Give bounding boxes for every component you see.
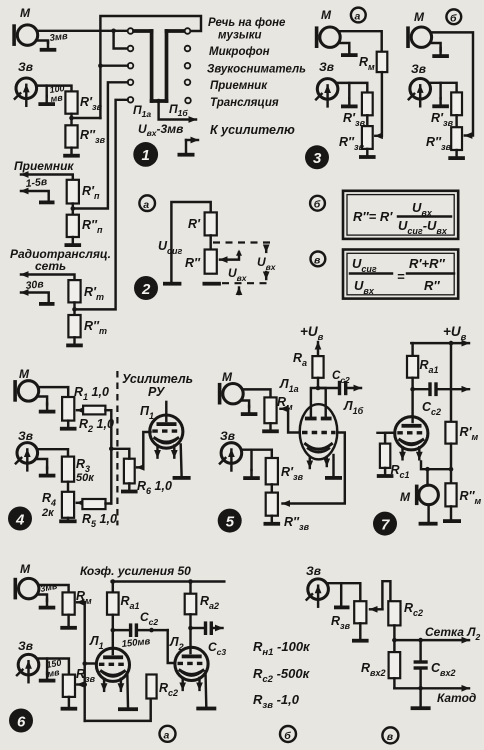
svg-text:Зв: Зв [18, 60, 33, 74]
resistor R'зв (3б) [451, 92, 462, 115]
resistor Ra1 [407, 356, 418, 378]
wire input arrow 1 [21, 175, 73, 180]
ground (R''зв 3a) [359, 149, 376, 159]
wire Зв to Rзв (в) [328, 583, 360, 601]
svg-text:R″= R′: R″= R′ [353, 209, 393, 224]
ground (R''м) [443, 519, 461, 523]
node Ra2 top [188, 579, 193, 584]
svg-text:3мв: 3мв [49, 31, 69, 44]
tube П1 [150, 415, 183, 458]
wire mic to Rм (6) [39, 585, 69, 592]
wire Зв to R'зв [37, 86, 72, 92]
svg-text:Катод: Катод [437, 691, 476, 705]
svg-text:=: = [397, 269, 405, 284]
wire tap up to contact row 4 [73, 82, 128, 208]
formula box 1 [343, 191, 458, 239]
resistor R6 [124, 459, 135, 484]
label (б) circled [310, 196, 325, 211]
wire Зв to R'зв (5) [242, 450, 272, 458]
svg-text:а: а [164, 730, 170, 742]
potentiometer R''зв (5) [266, 493, 278, 516]
node Трансляция tap [72, 307, 77, 312]
wire R'п to R''п [72, 204, 74, 215]
wire input arrow 2 [21, 191, 49, 200]
figure number 6 [9, 709, 33, 733]
pickup Зв (4) [16, 443, 38, 471]
figure number 4 [8, 507, 32, 531]
wire Ra2 to anode node Л2 [189, 614, 191, 628]
svg-text:7: 7 [381, 517, 390, 534]
wire input arrow 1 [21, 275, 75, 281]
node anode junction (7) [410, 387, 415, 392]
resistor R'' [205, 250, 217, 274]
wire Зв to Rзв [39, 659, 69, 675]
svg-text:Зв: Зв [18, 639, 33, 653]
resistor R'зв (5) [266, 458, 278, 484]
wire R2 right to bus [105, 409, 111, 411]
switch П1б wiper bar [165, 31, 169, 101]
potentiometer Rзв (6) [63, 675, 75, 697]
svg-text:M: M [19, 367, 30, 381]
wire R'зв to R''зв (3б) [455, 115, 457, 127]
wire mic to Rм [244, 389, 270, 397]
wire mic to Rм [340, 31, 382, 52]
wire Rвх2 bottom [393, 678, 395, 688]
wire Зв to R'зв (3б) [431, 83, 457, 93]
wire mic to R1 [39, 387, 68, 397]
resistor R''п [67, 215, 79, 237]
resistor R'зв (3a) [362, 93, 373, 116]
wire anode T feeds [311, 388, 326, 417]
node grid wire left [392, 638, 397, 643]
microphone M (3б) [406, 26, 431, 48]
wire Л1 cathode to ground [126, 673, 129, 708]
wire R''м to ground [450, 506, 452, 519]
ground (Приемник input) [39, 201, 55, 205]
svg-text:К усилителю: К усилителю [210, 123, 295, 137]
svg-text:Приемник: Приемник [14, 159, 74, 173]
wire grid right to R''зв tap [283, 433, 345, 504]
wire Зв to R3 [38, 449, 68, 456]
svg-text:РУ: РУ [148, 385, 166, 399]
switch П1б contact 5 [185, 98, 191, 104]
resistor R'зв [65, 91, 77, 113]
wire anode lead Л1 [112, 630, 114, 654]
wire Cc2 out to Rc2 and Л2 grid [138, 629, 168, 631]
ground (Л2 cathode) [196, 707, 216, 711]
figure number 2 [134, 276, 158, 300]
ground (в) [419, 688, 421, 706]
svg-text:M: M [20, 6, 31, 20]
wire cathode to mic junction [421, 462, 451, 470]
ground (mic 3б) [431, 43, 441, 51]
wire Л2 grid link to Cc2 wire [168, 630, 175, 663]
wire Rзв tap arrow to bus [77, 683, 84, 685]
wire Ra to anode junction [317, 378, 319, 388]
svg-text:4: 4 [15, 512, 25, 529]
wire Cc2 output arrow [438, 388, 469, 390]
svg-text:R″: R″ [424, 278, 440, 293]
tube (7) [395, 417, 428, 460]
tube П1 anode lead [165, 402, 167, 421]
svg-text:6: 6 [17, 714, 26, 731]
ground (Rм 6) [67, 615, 69, 626]
figure number 5 [218, 509, 242, 533]
anode bar left (Л1а) [305, 417, 317, 421]
ground (mic 3a) [339, 43, 349, 50]
wire anode lead (7) [411, 389, 413, 422]
wire grid П1 to R6 tap [137, 432, 151, 467]
potentiometer Rзв (в) [354, 601, 366, 623]
wire Ra1 to anode node [411, 378, 413, 390]
ground (Rзв 6) [68, 697, 70, 707]
ground (mic 6) [38, 595, 48, 602]
switch П1а wiper top link [134, 29, 152, 33]
pickup Зв (3a) [316, 79, 338, 107]
pickup Зв [15, 78, 37, 106]
svg-text:Зв: Зв [220, 429, 235, 443]
svg-text:1-5в: 1-5в [25, 176, 48, 190]
resistor R' [205, 212, 217, 235]
wire Ra2 top lead [189, 582, 191, 594]
resistor R'п [67, 180, 79, 204]
wire Ra1 to anode node (6) [112, 615, 114, 630]
wire Катод arrow [394, 687, 469, 689]
wire R'зв to R''зв (3a) [366, 115, 368, 126]
ground (R''т) [66, 337, 83, 347]
wire mixing bus vertical [83, 602, 85, 721]
svg-text:M: M [321, 8, 332, 22]
wire R5 right to bus [106, 502, 112, 504]
svg-text:Uвх-3мв: Uвх-3мв [138, 122, 183, 138]
wire R'т to R''т [73, 302, 75, 315]
wire R3 to R4 [67, 482, 69, 492]
microphone M (5) [218, 383, 243, 405]
wire top supply rail (6) [112, 580, 225, 582]
svg-text:Усилитель: Усилитель [122, 372, 193, 386]
svg-text:Зв: Зв [306, 564, 321, 578]
resistor R''зв (3a) [362, 126, 373, 149]
svg-text:2: 2 [141, 281, 151, 298]
node row 3 bend [98, 63, 103, 68]
wire mic output to switch row 1 [38, 30, 128, 32]
node anode junction Л1 [111, 628, 116, 633]
wire R'м to junction [450, 444, 452, 484]
tube Л1 [96, 648, 129, 691]
node Cвх2 top [418, 638, 423, 643]
wire tap up to contact row 5 [75, 100, 128, 310]
formula box 2 [343, 250, 458, 299]
bar (source bottom) [163, 282, 181, 286]
ground (mic 5) [242, 401, 249, 408]
resistor R5 (horizontal) with tap arrow into R4 [77, 502, 83, 504]
wire mic to ground (7) [427, 505, 429, 522]
wire wiper join bar [152, 99, 167, 103]
wire П1 cathode right to ground [179, 445, 182, 477]
wire supply arrow up [317, 342, 319, 356]
svg-text:Речь на фоне: Речь на фоне [208, 17, 286, 29]
wire R' to R'' [209, 235, 211, 249]
node Cвх2 bottom [418, 686, 423, 691]
node bus to РУ [109, 447, 114, 452]
wire R'зв to R''зв (5) [271, 484, 273, 492]
wire Cc2 to Л1б arrow [347, 387, 361, 389]
ground (mic M) [40, 42, 57, 52]
arrow Uвх right top [265, 246, 267, 252]
node mic top [425, 467, 430, 472]
ground (R''зв 3б) [448, 150, 465, 160]
resistor R''м [445, 483, 456, 506]
resistor Ra [312, 356, 323, 378]
resistor R'т [68, 280, 80, 302]
wire Cc3 output arrow [213, 627, 223, 629]
capacitor Cc3 [191, 627, 204, 629]
ground (сеть input) [39, 302, 55, 306]
svg-text:M: M [20, 562, 31, 576]
svg-text:в: в [314, 255, 321, 267]
figure number 7 [373, 512, 397, 536]
capacitor Cc2 [318, 387, 337, 389]
node grid bus [82, 661, 87, 666]
tube Л2 [175, 647, 208, 690]
pickup Зв (6) [17, 654, 39, 682]
svg-text:Зв: Зв [319, 60, 334, 74]
resistor Rc1 [380, 444, 390, 468]
ground (R''зв) [63, 148, 80, 158]
ground (Зв 3б) [439, 83, 441, 99]
microphone M (7) [415, 485, 419, 506]
ground (R1) [60, 421, 77, 431]
arrow Uвх right bottom [265, 272, 267, 279]
wire Ra1 top lead [112, 582, 114, 593]
label (а) circled [139, 195, 155, 211]
resistor Rc2 (в) [388, 601, 400, 625]
svg-text:5: 5 [226, 514, 235, 531]
resistor R3 [62, 457, 74, 482]
wire right bus to R'м [450, 343, 452, 422]
ground (mic 7) [419, 522, 438, 526]
label (а) circled [351, 8, 366, 23]
svg-text:3: 3 [313, 150, 322, 167]
wire Rм tap arrow to bus [77, 601, 85, 603]
svg-text:Коэф. усиления 50: Коэф. усиления 50 [80, 564, 191, 578]
wire Rc2 to grid node [393, 625, 395, 640]
figure number 3 [305, 145, 329, 169]
grid dashes [302, 431, 336, 434]
wire Л2 cathode to ground [204, 672, 207, 707]
svg-text:Звукосниматель: Звукосниматель [207, 64, 306, 76]
ground (Л1 cathode) [118, 707, 138, 711]
svg-text:M: M [414, 10, 425, 24]
wire output lower with ground [186, 139, 198, 141]
svg-text:R′: R′ [188, 217, 201, 231]
wire tap arrow into R'' [220, 253, 239, 260]
switch П1а contact 3 [128, 63, 134, 69]
resistor R''зв [65, 125, 77, 147]
node anode junction [316, 386, 321, 391]
resistor R''т [68, 315, 80, 337]
wire R6 top to bus node [111, 449, 129, 459]
label (а) circled (6) [160, 726, 176, 742]
wire mic ground stub [36, 41, 48, 43]
node Ra1 top [111, 579, 116, 584]
svg-text:б: б [284, 730, 291, 742]
pickup Зв (5) [220, 443, 242, 471]
potentiometer R4 [62, 492, 74, 518]
node anode junction Л2 [188, 626, 193, 631]
switch П1а contact 5 [128, 97, 134, 103]
pickup Зв (3б) [409, 79, 431, 107]
dashed separator line [116, 371, 118, 525]
svg-text:R′+R″: R′+R″ [409, 256, 445, 271]
dashed line lower [222, 282, 270, 284]
wire input arrow 2 [21, 293, 49, 302]
ground (Rc1) [377, 468, 394, 478]
switch П1б contact 3 [185, 63, 191, 69]
resistor R''зв (3б) [451, 127, 462, 150]
ground (Rм 5) [262, 423, 279, 433]
svg-text:Зв: Зв [18, 429, 33, 443]
svg-text:Зв: Зв [411, 62, 426, 76]
microphone M [12, 24, 37, 46]
wire tap up to contact row 3 [72, 117, 101, 119]
cathode arc [306, 444, 332, 449]
ground (Зв 5) [250, 450, 252, 470]
wire top + Uсиг source line [171, 202, 210, 282]
wire down to Ra1 [411, 343, 413, 356]
label (б) circled [446, 9, 461, 24]
svg-text:в: в [387, 731, 394, 743]
ground (Зв 3a) [348, 83, 350, 99]
wire Rзв tap to Rc2 (П jumper) [382, 581, 390, 609]
ground (Зв 4) [36, 459, 47, 469]
svg-text:сеть: сеть [35, 259, 66, 273]
wire grid to Rc1 [385, 433, 395, 444]
resistor Ra1 (6) [107, 592, 119, 614]
wire Л1 grid to bus [85, 662, 97, 664]
wire bus R2-R5 [110, 410, 112, 503]
capacitor Cвх2 [419, 640, 421, 660]
anode bar right [321, 417, 332, 421]
svg-text:1: 1 [142, 147, 150, 164]
microphone M (3a) [315, 26, 340, 48]
svg-text:а: а [355, 11, 361, 23]
cathode lead arrows [309, 457, 311, 468]
resistor Rвх2 [393, 640, 395, 652]
ground (R'' bottom) [203, 282, 221, 286]
switch П1а contact 4 [128, 80, 134, 86]
svg-text:Трансляция: Трансляция [210, 97, 279, 109]
wire mic lead up [426, 469, 428, 485]
potentiometer Rм (5) [264, 397, 276, 423]
label (в) circled bottom [382, 727, 398, 743]
node Приемник tap [71, 206, 76, 211]
wire output to amplifier (upper) [159, 101, 196, 120]
svg-text:30в: 30в [25, 278, 45, 292]
potentiometer R1 [62, 397, 74, 421]
wire R'зв to R''зв [70, 114, 72, 126]
svg-text:Приемник: Приемник [210, 80, 268, 92]
resistor Rc2 (6) [146, 675, 156, 699]
microphone M (6) [14, 578, 39, 600]
dashed line upper [213, 241, 270, 243]
ground (Зв) [45, 86, 47, 97]
svg-text:2к: 2к [41, 507, 55, 519]
ground (R4) [67, 518, 69, 520]
node wiper join [156, 99, 161, 104]
ground (П1 cathode) [173, 476, 191, 480]
resistor Ra2 [185, 594, 197, 615]
ground (Зв в) [340, 583, 342, 605]
svg-text:б: б [450, 12, 457, 24]
wire Сетка Л2 arrow [394, 639, 469, 641]
wire Зв to R'зв [338, 83, 367, 93]
svg-text:M: M [222, 370, 233, 384]
svg-text:50к: 50к [76, 472, 95, 484]
pickup Зв (в) [307, 579, 329, 607]
svg-text:б: б [314, 199, 321, 211]
label (в) circled [311, 252, 326, 267]
switch П1б contact 2 [185, 46, 191, 52]
svg-text:а: а [143, 199, 149, 211]
ground (R''зв 5) [264, 516, 281, 526]
ground (Л1 cathode) [325, 476, 342, 480]
resistor R2 (horizontal) with tap arrow into R1 [77, 409, 83, 411]
switch П1б contact 4 [185, 80, 191, 86]
potentiometer Rм (6) [63, 592, 75, 614]
resistor R'м [445, 422, 456, 444]
ground (lower output) [185, 140, 187, 153]
switch П1а contact 2 [128, 46, 134, 52]
wire mic down right side to R''зв tap [432, 32, 473, 135]
ground (R6) [121, 483, 138, 493]
node junction mic to contact 2 [111, 29, 116, 34]
svg-text:M: M [400, 490, 411, 504]
node Зв divider tap [69, 116, 74, 121]
svg-text:R″: R″ [185, 256, 201, 270]
wire Rм down to tap arrow [375, 72, 382, 136]
svg-text:мв: мв [50, 92, 64, 104]
svg-text:музыки: музыки [218, 30, 262, 42]
label (б) circled bottom [280, 726, 296, 742]
wire top link to П1б contact 1 [100, 16, 201, 118]
node mic junction right [449, 467, 454, 472]
switch П1б wiper top link [167, 29, 185, 33]
arrow below dash (inner) [238, 288, 240, 295]
arrowhead up on tap stub [236, 250, 242, 256]
resistor Rм (3a) [377, 52, 388, 72]
node Rзв tap bus [82, 682, 87, 687]
grid stub bar [378, 432, 393, 434]
tap arrowhead into Rзв [370, 608, 382, 610]
wire grid left to Rм tap [281, 409, 300, 433]
ground (Зв 6) [46, 659, 48, 675]
node supply/R'м bus [449, 341, 454, 346]
microphone M (4) [13, 380, 38, 402]
switch П1б contact 1 [185, 28, 191, 34]
node Rc2 top [149, 628, 154, 633]
capacitor Cc2 (6) [113, 629, 129, 631]
ground (mic 4) [38, 397, 48, 405]
switch П1а contact 1 [128, 28, 134, 34]
capacitor Cc2 (7) [413, 388, 428, 390]
wire anode lead Л2 [189, 628, 191, 653]
figure number 1 [133, 142, 158, 167]
wire cathode right to ground [332, 455, 334, 476]
wire bus bottom to Rc2 bottom [85, 699, 151, 721]
ground (R''п) [65, 237, 82, 247]
ground (Rзв в) [359, 623, 361, 639]
